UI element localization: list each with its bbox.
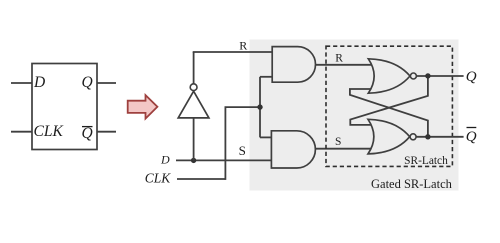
node D junction: [191, 158, 196, 163]
wire R line: [193, 51, 273, 53]
wire top AND output (R into latch): [316, 64, 375, 66]
wire CLK riser: [224, 107, 226, 180]
NOR gate G1 (top): [368, 59, 410, 93]
AND gate A2 (bottom): [271, 131, 315, 168]
gray panel Gated SR-Latch region: [250, 40, 459, 191]
svg-text:Gated SR-Latch: Gated SR-Latch: [371, 177, 453, 191]
wire Q output of block: [97, 82, 116, 84]
D flip-flop block U0: [32, 64, 97, 150]
svg-text:R: R: [239, 38, 247, 52]
svg-text:R: R: [335, 53, 343, 65]
wire inverter output up: [193, 52, 195, 84]
node clock junction: [257, 104, 262, 109]
wire stub to bottom AND upper input: [260, 136, 271, 138]
node Qbar junction: [425, 134, 430, 139]
svg-text:Q: Q: [82, 74, 93, 91]
wire Q output: [416, 75, 463, 77]
dashed box SR-Latch: [326, 46, 452, 166]
svg-text:CLK: CLK: [34, 123, 64, 140]
inverter U1: [178, 91, 209, 118]
svg-text:Q: Q: [466, 69, 477, 85]
svg-text:SR-Latch: SR-Latch: [404, 155, 448, 167]
wire D line: [176, 159, 271, 161]
svg-text:S: S: [335, 136, 341, 148]
svg-text:Q: Q: [466, 129, 477, 145]
wire CLK feed to clock node: [225, 106, 261, 108]
svg-text:CLK: CLK: [145, 170, 172, 185]
AND gate A1 (top): [272, 47, 315, 83]
svg-text:D: D: [160, 152, 170, 166]
wire feedback bottom: NOR2 out up and diagonal to NOR1 input: [350, 89, 428, 137]
wire clock distribution vertical: [259, 77, 261, 138]
wire D input to block: [11, 82, 32, 84]
wire Qbar output: [416, 136, 464, 138]
wire CLK input to block: [11, 131, 32, 133]
wire inverter input riser: [193, 118, 195, 160]
wire CLK horizontal: [177, 178, 225, 180]
svg-text:D: D: [33, 74, 45, 91]
svg-text:S: S: [239, 143, 246, 158]
node Q junction: [425, 73, 430, 78]
wire bottom AND output (S into latch): [314, 148, 374, 150]
wire feedback top: NOR1 out down and diagonal to NOR2 input: [350, 76, 428, 125]
wire stub to top AND lower input: [260, 76, 272, 78]
wire Qbar output of block: [97, 131, 116, 133]
arrow (red block arrow): [128, 95, 158, 119]
NOR gate G2 (bottom): [368, 119, 410, 154]
svg-text:Q: Q: [82, 125, 93, 142]
